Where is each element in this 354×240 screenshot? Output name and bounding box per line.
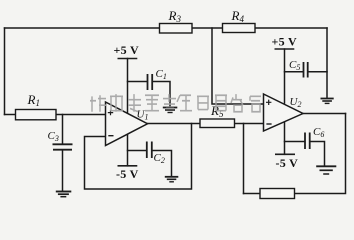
resistor feedback (unlabeled, bottom right) — [260, 189, 295, 199]
svg-text:-5 V: -5 V — [276, 156, 299, 170]
capacitor C5 — [304, 62, 308, 78]
wire U2 feedback bottom left — [244, 193, 261, 195]
wire U2 -5V supply — [284, 122, 286, 155]
ground (C2) — [165, 177, 179, 182]
wire C2 branch — [128, 151, 172, 177]
wire C6 branch — [285, 142, 325, 166]
wire node junction R3-R4 drop — [212, 28, 264, 104]
wire U1 output — [148, 123, 201, 125]
wire C3 branch down — [62, 115, 64, 191]
wire right drop to ground — [326, 28, 328, 98]
wire left vertical — [4, 28, 6, 115]
power rail -5V (U2) — [275, 154, 298, 170]
wire top rail left segment — [5, 27, 160, 29]
resistor R5 — [200, 119, 235, 128]
wire U1 -5V supply — [127, 135, 129, 166]
wire C1 branch — [128, 82, 171, 106]
svg-text:+5 V: +5 V — [272, 34, 298, 48]
power rail +5V (U1) — [114, 43, 140, 59]
ground (C6) — [316, 166, 336, 174]
wire R5 to U2 inverting input — [235, 123, 264, 125]
wire U2 +5V supply — [284, 49, 286, 103]
wire U2 feedback drop — [243, 124, 245, 194]
power rail +5V (U2) — [272, 34, 298, 49]
resistor R4 — [223, 24, 256, 33]
wire C5 branch — [285, 71, 328, 73]
ground (top right / C5) — [321, 99, 334, 104]
capacitor C6 — [305, 133, 310, 150]
capacitor C1 — [148, 74, 153, 90]
capacitor C2 — [147, 142, 152, 159]
wire top rail middle segment — [192, 27, 223, 29]
svg-text:-5 V: -5 V — [116, 167, 139, 181]
op-amp U1 — [106, 102, 148, 146]
capacitor C3 — [53, 144, 73, 149]
wire U1 +5V supply — [127, 59, 129, 114]
svg-text:+5 V: +5 V — [114, 43, 140, 57]
wire top rail right segment — [255, 27, 327, 29]
power rail -5V (U1) — [116, 166, 139, 181]
watermark (synthetic CJK-like strokes) — [90, 94, 261, 112]
op-amp U2 — [264, 94, 304, 131]
resistor R1 — [16, 110, 57, 120]
ground (C1) — [163, 108, 178, 113]
ground (C3) — [56, 192, 72, 197]
wire U1 feedback loop — [85, 124, 192, 190]
wire R1 input run — [5, 114, 106, 116]
wire U2 feedback bottom right — [295, 114, 346, 194]
wire U2 output — [303, 113, 346, 115]
resistor R3 — [160, 24, 193, 34]
